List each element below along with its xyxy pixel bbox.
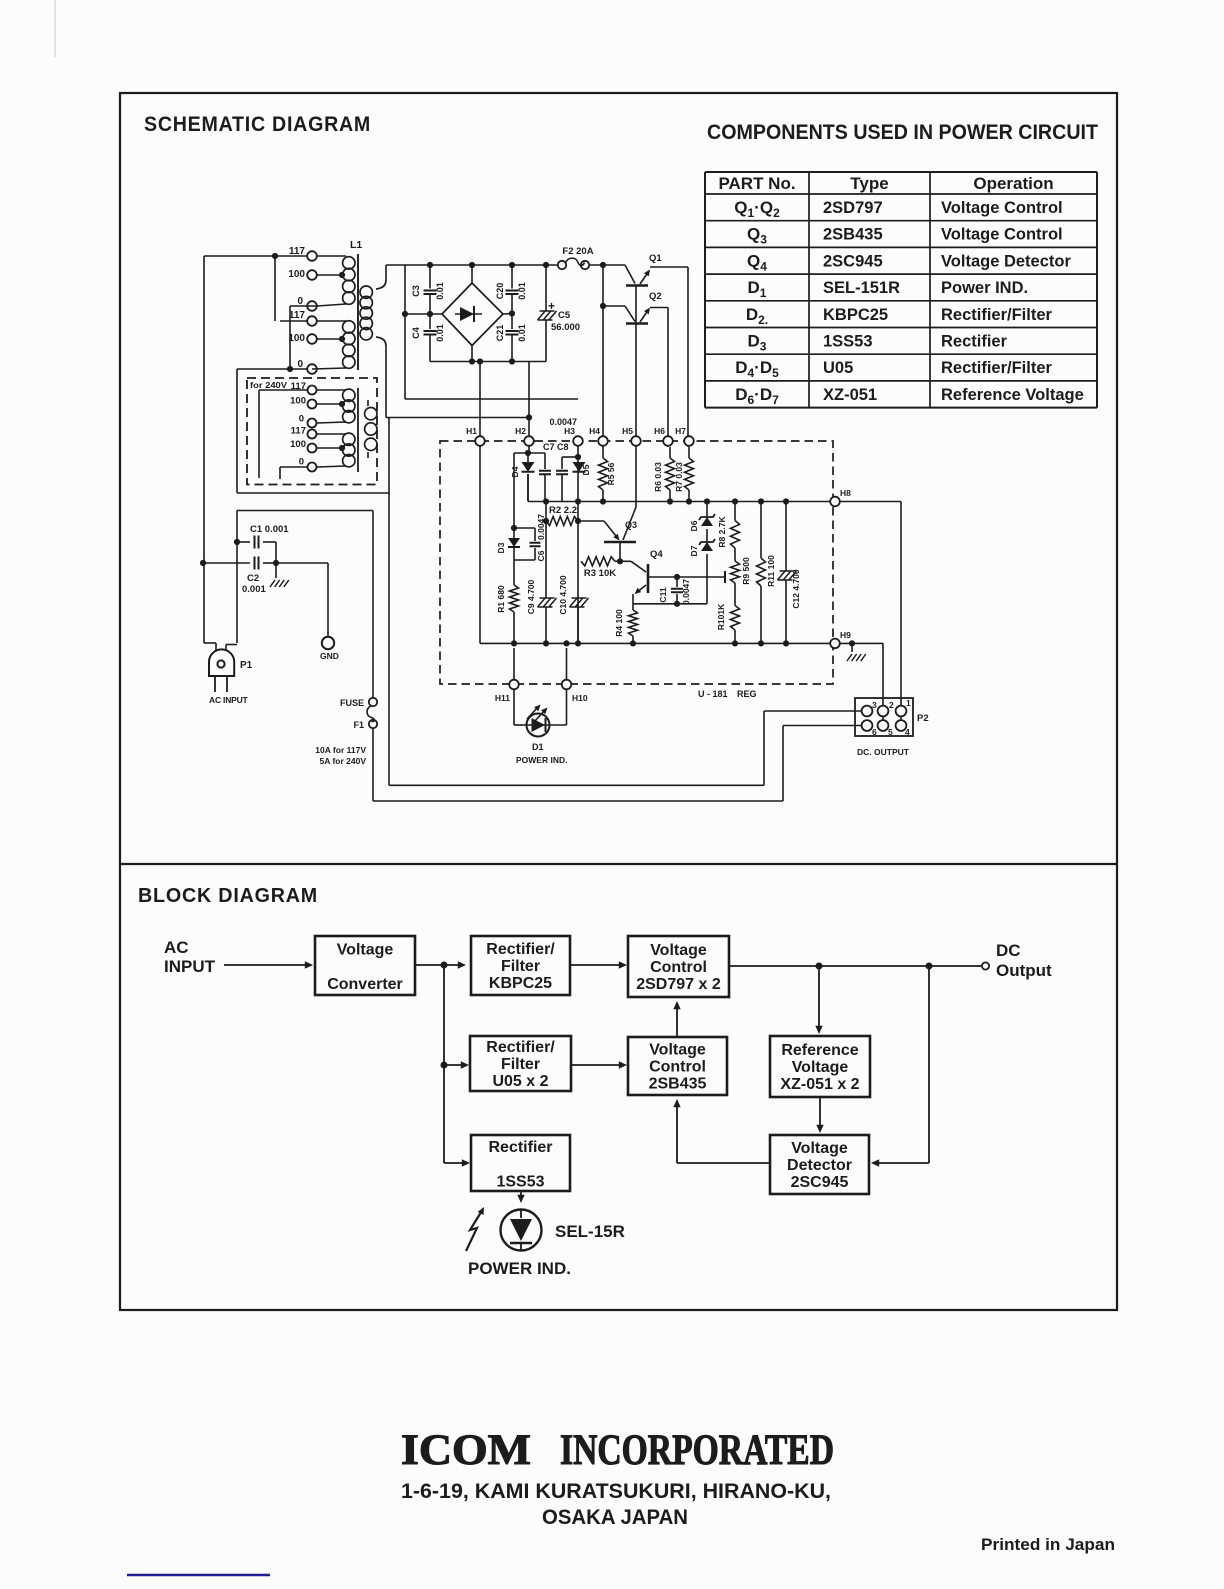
svg-text:REG: REG xyxy=(737,689,757,699)
svg-text:117: 117 xyxy=(289,310,306,321)
svg-text:0.0047: 0.0047 xyxy=(681,579,691,605)
svg-text:GND: GND xyxy=(320,651,339,661)
svg-text:C5: C5 xyxy=(558,310,571,321)
svg-text:POWER IND.: POWER IND. xyxy=(468,1259,571,1278)
svg-text:D3: D3 xyxy=(496,542,506,553)
svg-text:100: 100 xyxy=(290,396,306,407)
svg-text:3: 3 xyxy=(872,700,877,710)
svg-text:1SS53: 1SS53 xyxy=(823,333,873,351)
svg-text:SEL-15R: SEL-15R xyxy=(555,1222,625,1241)
svg-text:COMPONENTS USED IN POWER CIRCU: COMPONENTS USED IN POWER CIRCUIT xyxy=(707,121,1098,144)
svg-text:H1: H1 xyxy=(466,426,477,436)
svg-text:C11: C11 xyxy=(658,587,668,602)
svg-text:R1 680: R1 680 xyxy=(496,585,506,613)
svg-text:C3: C3 xyxy=(411,285,421,297)
svg-text:R5 56: R5 56 xyxy=(606,462,616,485)
svg-text:POWER IND.: POWER IND. xyxy=(516,755,567,765)
svg-text:D4: D4 xyxy=(510,466,520,477)
svg-text:C10 4.700: C10 4.700 xyxy=(558,575,568,614)
svg-text:SEL-151R: SEL-151R xyxy=(823,279,900,297)
svg-text:H2: H2 xyxy=(515,426,526,436)
svg-text:P2: P2 xyxy=(917,713,929,724)
svg-text:R2 2.2: R2 2.2 xyxy=(549,505,577,516)
svg-text:0.01: 0.01 xyxy=(435,324,445,342)
svg-text:U05: U05 xyxy=(823,359,853,377)
svg-text:C6: C6 xyxy=(536,550,546,561)
svg-text:0.01: 0.01 xyxy=(517,324,527,342)
svg-text:R101K: R101K xyxy=(716,603,726,630)
svg-text:Voltage: Voltage xyxy=(649,1042,706,1059)
svg-text:6: 6 xyxy=(872,727,877,737)
svg-text:C20: C20 xyxy=(495,283,505,300)
svg-text:Voltage: Voltage xyxy=(650,942,707,959)
svg-text:1: 1 xyxy=(906,698,911,708)
svg-text:Rectifier/: Rectifier/ xyxy=(486,1039,555,1056)
svg-text:Voltage Detector: Voltage Detector xyxy=(941,252,1071,270)
svg-text:Rectifier: Rectifier xyxy=(941,333,1008,351)
svg-text:D6: D6 xyxy=(689,520,699,531)
svg-text:2SB435: 2SB435 xyxy=(649,1076,707,1093)
svg-text:56.000: 56.000 xyxy=(551,322,580,333)
svg-text:SCHEMATIC DIAGRAM: SCHEMATIC DIAGRAM xyxy=(144,112,371,136)
svg-text:0.01: 0.01 xyxy=(435,282,445,300)
svg-text:INPUT: INPUT xyxy=(164,957,216,976)
svg-text:U - 181: U - 181 xyxy=(698,689,728,699)
svg-text:Filter: Filter xyxy=(501,958,540,975)
svg-text:1SS53: 1SS53 xyxy=(496,1174,544,1191)
svg-text:0.01: 0.01 xyxy=(517,282,527,300)
svg-text:100: 100 xyxy=(288,333,305,344)
svg-text:C1 0.001: C1 0.001 xyxy=(250,524,289,535)
svg-text:5A for 240V: 5A for 240V xyxy=(320,756,367,766)
svg-text:H11: H11 xyxy=(495,693,510,703)
svg-text:C2: C2 xyxy=(247,573,259,584)
svg-text:BLOCK DIAGRAM: BLOCK DIAGRAM xyxy=(138,885,318,907)
svg-text:H4: H4 xyxy=(589,426,600,436)
svg-text:10A for 117V: 10A for 117V xyxy=(315,745,366,755)
svg-text:0.0047: 0.0047 xyxy=(536,514,546,540)
svg-text:C4: C4 xyxy=(411,327,421,339)
svg-text:OSAKA JAPAN: OSAKA JAPAN xyxy=(542,1506,688,1529)
svg-text:+: + xyxy=(548,299,555,313)
svg-text:Voltage Control: Voltage Control xyxy=(941,199,1063,217)
svg-text:Voltage: Voltage xyxy=(792,1059,849,1076)
svg-text:Rectifier/Filter: Rectifier/Filter xyxy=(941,306,1053,324)
svg-text:Rectifier: Rectifier xyxy=(488,1139,552,1156)
svg-text:R11 100: R11 100 xyxy=(766,555,776,587)
svg-text:Reference Voltage: Reference Voltage xyxy=(941,386,1084,404)
svg-text:100: 100 xyxy=(290,439,306,450)
svg-text:ICOM: ICOM xyxy=(401,1427,531,1474)
svg-text:2SD797: 2SD797 xyxy=(823,199,883,217)
svg-text:D5: D5 xyxy=(581,464,591,475)
svg-text:H6: H6 xyxy=(654,426,665,436)
svg-text:Power IND.: Power IND. xyxy=(941,279,1028,297)
svg-text:Q3: Q3 xyxy=(625,520,637,530)
svg-text:2SC945: 2SC945 xyxy=(791,1174,849,1191)
svg-text:KBPC25: KBPC25 xyxy=(489,975,552,992)
svg-text:5: 5 xyxy=(888,727,893,737)
svg-text:Detector: Detector xyxy=(787,1157,852,1174)
svg-text:AC: AC xyxy=(164,938,189,957)
svg-text:D7: D7 xyxy=(689,545,699,556)
svg-text:0.001: 0.001 xyxy=(242,584,266,595)
svg-text:C21: C21 xyxy=(495,325,505,342)
svg-text:H7: H7 xyxy=(675,426,686,436)
svg-text:Operation: Operation xyxy=(973,174,1053,193)
svg-text:R3 10K: R3 10K xyxy=(584,568,616,579)
svg-text:C7 C8: C7 C8 xyxy=(543,442,569,452)
svg-text:Printed in Japan: Printed in Japan xyxy=(981,1535,1115,1554)
svg-text:AC INPUT: AC INPUT xyxy=(209,695,249,705)
svg-text:U05 x 2: U05 x 2 xyxy=(492,1073,548,1090)
svg-text:H5: H5 xyxy=(622,426,633,436)
svg-text:FUSE: FUSE xyxy=(340,698,364,708)
svg-text:C12 4.700: C12 4.700 xyxy=(791,569,801,608)
svg-text:H9: H9 xyxy=(840,630,851,640)
svg-text:R8 2.7K: R8 2.7K xyxy=(717,516,727,548)
svg-text:Reference: Reference xyxy=(781,1042,858,1059)
svg-text:Rectifier/Filter: Rectifier/Filter xyxy=(941,359,1053,377)
svg-text:Type: Type xyxy=(850,174,888,193)
svg-text:Control: Control xyxy=(650,959,707,976)
svg-text:Output: Output xyxy=(996,961,1052,980)
svg-text:H8: H8 xyxy=(840,488,851,498)
svg-text:D1: D1 xyxy=(532,742,544,752)
svg-text:100: 100 xyxy=(288,269,305,280)
svg-text:Voltage: Voltage xyxy=(791,1140,848,1157)
svg-text:Voltage: Voltage xyxy=(337,942,394,959)
svg-text:R9 500: R9 500 xyxy=(741,557,751,585)
svg-text:XZ-051 x 2: XZ-051 x 2 xyxy=(780,1076,859,1093)
svg-text:XZ-051: XZ-051 xyxy=(823,386,877,404)
svg-text:1-6-19, KAMI KURATSUKURI, HIRA: 1-6-19, KAMI KURATSUKURI, HIRANO-KU, xyxy=(401,1480,831,1503)
svg-text:H10: H10 xyxy=(572,693,588,703)
svg-text:2SC945: 2SC945 xyxy=(823,252,883,270)
svg-text:PART No.: PART No. xyxy=(718,174,795,193)
svg-text:R7 0.03: R7 0.03 xyxy=(674,462,684,492)
svg-text:Q2: Q2 xyxy=(649,291,662,302)
svg-text:H3: H3 xyxy=(564,426,575,436)
svg-text:P1: P1 xyxy=(240,660,253,671)
svg-text:Q4: Q4 xyxy=(650,549,663,560)
svg-text:Converter: Converter xyxy=(327,976,403,993)
svg-text:117: 117 xyxy=(289,246,306,257)
svg-text:F2 20A: F2 20A xyxy=(562,246,593,257)
svg-text:Control: Control xyxy=(649,1059,706,1076)
svg-text:Filter: Filter xyxy=(501,1056,540,1073)
svg-text:R4 100: R4 100 xyxy=(614,609,624,637)
svg-text:for 240V: for 240V xyxy=(250,380,287,390)
svg-text:2SB435: 2SB435 xyxy=(823,226,883,244)
svg-text:C9 4.700: C9 4.700 xyxy=(526,579,536,614)
svg-text:DC. OUTPUT: DC. OUTPUT xyxy=(857,747,910,757)
svg-text:R6 0.03: R6 0.03 xyxy=(653,462,663,492)
svg-text:INCORPORATED: INCORPORATED xyxy=(560,1427,834,1474)
svg-text:DC: DC xyxy=(996,941,1021,960)
svg-text:4: 4 xyxy=(905,727,910,737)
svg-text:F1: F1 xyxy=(353,720,364,730)
svg-text:2SD797 x 2: 2SD797 x 2 xyxy=(636,976,721,993)
svg-text:KBPC25: KBPC25 xyxy=(823,306,888,324)
svg-text:2: 2 xyxy=(889,700,894,710)
svg-text:117: 117 xyxy=(291,426,306,437)
svg-text:Voltage Control: Voltage Control xyxy=(941,226,1063,244)
svg-text:Rectifier/: Rectifier/ xyxy=(486,941,555,958)
svg-text:0: 0 xyxy=(299,457,304,468)
svg-text:Q1: Q1 xyxy=(649,253,662,264)
svg-text:0: 0 xyxy=(299,414,304,425)
svg-text:L1: L1 xyxy=(350,239,362,251)
